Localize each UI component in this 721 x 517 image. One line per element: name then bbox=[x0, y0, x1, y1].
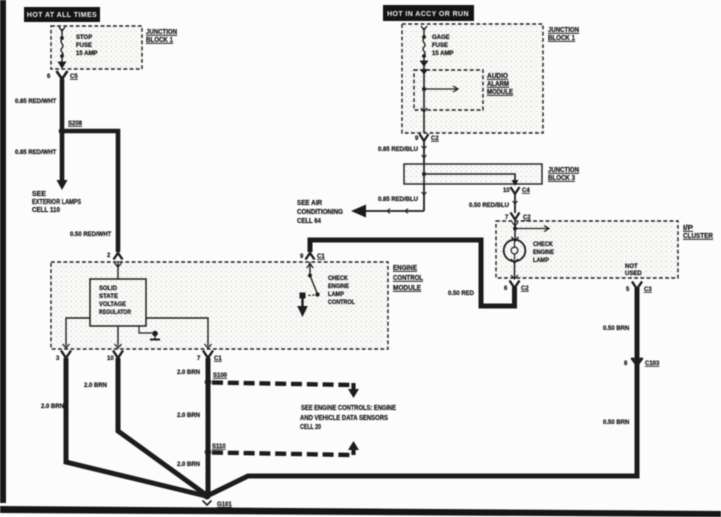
svg-text:CLUSTER: CLUSTER bbox=[683, 233, 713, 240]
connector C103 bbox=[624, 358, 660, 367]
svg-text:2.0 BRN: 2.0 BRN bbox=[41, 404, 64, 410]
wire 0.85 RED/WHT upper bbox=[60, 79, 65, 131]
arrow to air conditioning bbox=[351, 205, 366, 218]
engine control module label bbox=[393, 265, 424, 292]
arrow inside cluster bbox=[515, 226, 549, 232]
dashed wire S110 to sensors bbox=[212, 441, 359, 455]
fuse STOP FUSE value label bbox=[76, 35, 97, 57]
svg-text:MODULE: MODULE bbox=[393, 285, 421, 292]
voltage regulator U1 bbox=[90, 279, 146, 326]
svg-text:MODULE: MODULE bbox=[487, 89, 513, 96]
svg-text:C4: C4 bbox=[522, 188, 530, 194]
ground in ECM bbox=[139, 326, 160, 340]
svg-text:S100: S100 bbox=[213, 373, 228, 379]
wire regulator to pin 3 bbox=[63, 318, 91, 348]
svg-text:S110: S110 bbox=[212, 444, 226, 450]
connector C4 bbox=[511, 187, 531, 194]
wire pin 2 to regulator bbox=[115, 261, 122, 279]
svg-text:15 AMP: 15 AMP bbox=[432, 51, 453, 57]
wire 2.0 BRN pin 10 to G101 bbox=[118, 358, 205, 494]
arrow to exterior lamps bbox=[57, 180, 68, 190]
svg-text:I/P: I/P bbox=[683, 225, 693, 232]
svg-text:10: 10 bbox=[107, 356, 114, 362]
svg-text:NOT: NOT bbox=[625, 264, 638, 270]
wire S208 to pin 2 bbox=[62, 131, 118, 252]
svg-text:0.50 RED/BLU: 0.50 RED/BLU bbox=[469, 203, 509, 209]
svg-text:S208: S208 bbox=[68, 121, 83, 127]
wire 0.85 RED/WHT lower bbox=[60, 131, 65, 181]
I/P cluster label bbox=[683, 225, 713, 240]
svg-text:SEE: SEE bbox=[32, 191, 46, 198]
svg-text:G101: G101 bbox=[217, 502, 232, 508]
connector at pin 3 bbox=[61, 351, 71, 359]
node in audio alarm module bbox=[422, 87, 426, 91]
note SEE EXTERIOR LAMPS CELL 110 bbox=[32, 191, 81, 214]
svg-text:0.85 RED/BLU: 0.85 RED/BLU bbox=[378, 197, 418, 203]
svg-text:C2: C2 bbox=[431, 136, 439, 142]
svg-text:10: 10 bbox=[503, 188, 510, 194]
wire into cluster bbox=[512, 221, 518, 240]
wire audio alarm module to pin 9 bbox=[421, 89, 427, 133]
splice S110 bbox=[205, 444, 227, 455]
header box HOT IN ACCY OR RUN bbox=[383, 5, 474, 21]
fuse STOP FUSE (left) bbox=[58, 27, 67, 69]
svg-text:SOLID: SOLID bbox=[99, 286, 118, 292]
header box HOT AT ALL TIMES bbox=[24, 7, 100, 22]
connector C2 (junction block) bbox=[420, 134, 440, 142]
wire fuse to audio alarm module bbox=[420, 66, 428, 89]
svg-text:BLOCK 1: BLOCK 1 bbox=[548, 35, 575, 42]
svg-text:EXTERIOR LAMPS: EXTERIOR LAMPS bbox=[32, 199, 81, 206]
connector at pin 10 bbox=[113, 351, 123, 359]
connector C2 (cluster top) bbox=[511, 213, 532, 222]
svg-text:CELL 20: CELL 20 bbox=[300, 424, 321, 431]
node in cluster bbox=[513, 227, 517, 231]
junction block 1 (left) label bbox=[146, 29, 177, 44]
connector C5 bbox=[57, 71, 79, 80]
svg-text:HOT AT ALL TIMES: HOT AT ALL TIMES bbox=[27, 12, 97, 19]
svg-text:0.85 RED/WHT: 0.85 RED/WHT bbox=[15, 99, 57, 105]
svg-text:CONTROL: CONTROL bbox=[328, 300, 355, 306]
svg-text:SEE ENGINE CONTROLS: ENGINE: SEE ENGINE CONTROLS: ENGINE bbox=[301, 405, 396, 412]
junction block 3 box bbox=[404, 164, 542, 184]
svg-text:0.50 RED/WHT: 0.50 RED/WHT bbox=[70, 232, 112, 238]
connector C3 (cluster bottom right) bbox=[632, 282, 652, 294]
splice S100 bbox=[205, 373, 228, 385]
svg-text:JUNCTION: JUNCTION bbox=[146, 29, 177, 36]
wire 2.0 BRN pin 3 to G101 bbox=[66, 358, 206, 496]
svg-text:C2: C2 bbox=[523, 215, 531, 221]
junction block 1 (middle) box bbox=[402, 24, 543, 133]
ground G101 bbox=[203, 493, 233, 509]
svg-text:15 AMP: 15 AMP bbox=[76, 51, 97, 57]
arrow inside audio alarm module bbox=[424, 86, 458, 92]
NOT USED label bbox=[625, 264, 642, 277]
svg-text:BLOCK 1: BLOCK 1 bbox=[146, 37, 173, 44]
svg-text:STATE: STATE bbox=[99, 294, 118, 300]
svg-text:BLOCK 3: BLOCK 3 bbox=[548, 175, 575, 182]
svg-text:0.85 RED/BLU: 0.85 RED/BLU bbox=[378, 147, 418, 153]
svg-text:ALARM: ALARM bbox=[487, 81, 509, 88]
svg-text:REGULATOR: REGULATOR bbox=[99, 310, 132, 316]
svg-text:JUNCTION: JUNCTION bbox=[548, 167, 579, 174]
check engine lamp control switch bbox=[297, 262, 319, 317]
connector at pin 2 bbox=[114, 253, 123, 260]
svg-text:ENGINE: ENGINE bbox=[328, 284, 349, 290]
svg-text:0.50 RED: 0.50 RED bbox=[448, 291, 475, 297]
svg-text:C1: C1 bbox=[214, 356, 222, 362]
svg-text:VOLTAGE: VOLTAGE bbox=[99, 302, 126, 308]
svg-text:CHECK: CHECK bbox=[533, 242, 554, 248]
I/P cluster box bbox=[496, 221, 678, 278]
voltage regulator label bbox=[99, 286, 132, 316]
dashed wire S100 to sensors bbox=[212, 383, 359, 399]
svg-text:STOP: STOP bbox=[76, 35, 92, 41]
svg-text:CELL 110: CELL 110 bbox=[32, 207, 60, 214]
svg-text:JUNCTION: JUNCTION bbox=[548, 27, 579, 34]
junction block 1 (left) box bbox=[51, 26, 142, 69]
svg-text:0.50 BRN: 0.50 BRN bbox=[603, 420, 629, 426]
svg-text:C1: C1 bbox=[317, 254, 325, 260]
svg-text:2.0 BRN: 2.0 BRN bbox=[177, 462, 200, 468]
connector C1 at pin 9 bbox=[306, 253, 315, 260]
svg-text:FUSE: FUSE bbox=[432, 43, 448, 49]
svg-text:USED: USED bbox=[625, 271, 642, 277]
wire 0.50 RED/BLU bbox=[513, 194, 518, 213]
wire regulator to pin 7 bbox=[146, 318, 212, 348]
svg-text:0.85 RED/WHT: 0.85 RED/WHT bbox=[15, 150, 57, 156]
svg-text:2.0 BRN: 2.0 BRN bbox=[177, 413, 200, 419]
splice S208 bbox=[59, 121, 83, 134]
svg-text:SEE AIR: SEE AIR bbox=[297, 200, 322, 207]
note SEE ENGINE CONTROLS bbox=[300, 405, 396, 431]
fuse GAGE FUSE value label bbox=[432, 35, 453, 57]
svg-text:ENGINE: ENGINE bbox=[393, 265, 417, 272]
svg-text:CONTROL: CONTROL bbox=[393, 275, 424, 282]
svg-text:CHECK: CHECK bbox=[328, 276, 349, 282]
svg-text:C3: C3 bbox=[644, 287, 652, 293]
svg-text:CONDITIONING: CONDITIONING bbox=[297, 209, 343, 216]
svg-text:AND VEHICLE DATA SENSORS: AND VEHICLE DATA SENSORS bbox=[300, 415, 388, 422]
svg-text:0.50 BRN: 0.50 BRN bbox=[603, 326, 629, 332]
scan border bottom bar bbox=[0, 506, 721, 517]
svg-text:C2: C2 bbox=[521, 286, 529, 292]
fuse GAGE FUSE bbox=[420, 26, 429, 67]
svg-text:LAMP: LAMP bbox=[533, 258, 549, 264]
svg-text:GAGE: GAGE bbox=[432, 35, 450, 41]
scan border left bar bbox=[0, 0, 6, 503]
node in junction block 3 bbox=[422, 172, 426, 176]
svg-text:HOT IN ACCY OR RUN: HOT IN ACCY OR RUN bbox=[387, 11, 469, 18]
svg-text:2.0 BRN: 2.0 BRN bbox=[84, 383, 107, 389]
svg-text:FUSE: FUSE bbox=[76, 43, 92, 49]
wire inside junction block 3 bbox=[424, 164, 515, 184]
arrow to pin 10 bbox=[512, 180, 519, 186]
wire 0.85 RED/BLU upper bbox=[422, 141, 427, 164]
connector C2 (cluster bottom) bbox=[510, 281, 530, 293]
wire G101 to cluster pin 5 bbox=[209, 288, 637, 495]
svg-text:C103: C103 bbox=[645, 361, 660, 367]
junction block 3 label bbox=[548, 167, 579, 182]
audio alarm module box bbox=[414, 70, 483, 110]
wire 2.0 BRN pin 7 to G101 bbox=[206, 358, 211, 494]
junction block 1 (middle) label bbox=[548, 27, 579, 42]
svg-text:ENGINE: ENGINE bbox=[533, 250, 554, 256]
svg-text:CELL 64: CELL 64 bbox=[297, 218, 321, 225]
wire regulator to pin 10 bbox=[115, 326, 122, 348]
check engine lamp label bbox=[533, 242, 554, 264]
svg-text:C5: C5 bbox=[70, 74, 78, 80]
svg-text:LAMP: LAMP bbox=[328, 292, 344, 298]
check engine lamp bbox=[504, 237, 526, 279]
wire 0.50 RED loop ECM to lamp bbox=[310, 240, 515, 306]
connector C1 at pin 7 bbox=[203, 351, 222, 363]
note SEE AIR CONDITIONING CELL 64 bbox=[297, 200, 343, 225]
engine control module box bbox=[51, 262, 388, 349]
audio alarm module label bbox=[487, 73, 513, 96]
wire 0.85 RED/BLU lower bbox=[366, 184, 427, 214]
svg-text:2.0 BRN: 2.0 BRN bbox=[177, 370, 200, 376]
svg-text:AUDIO: AUDIO bbox=[487, 73, 509, 80]
check engine lamp control label bbox=[328, 276, 355, 306]
